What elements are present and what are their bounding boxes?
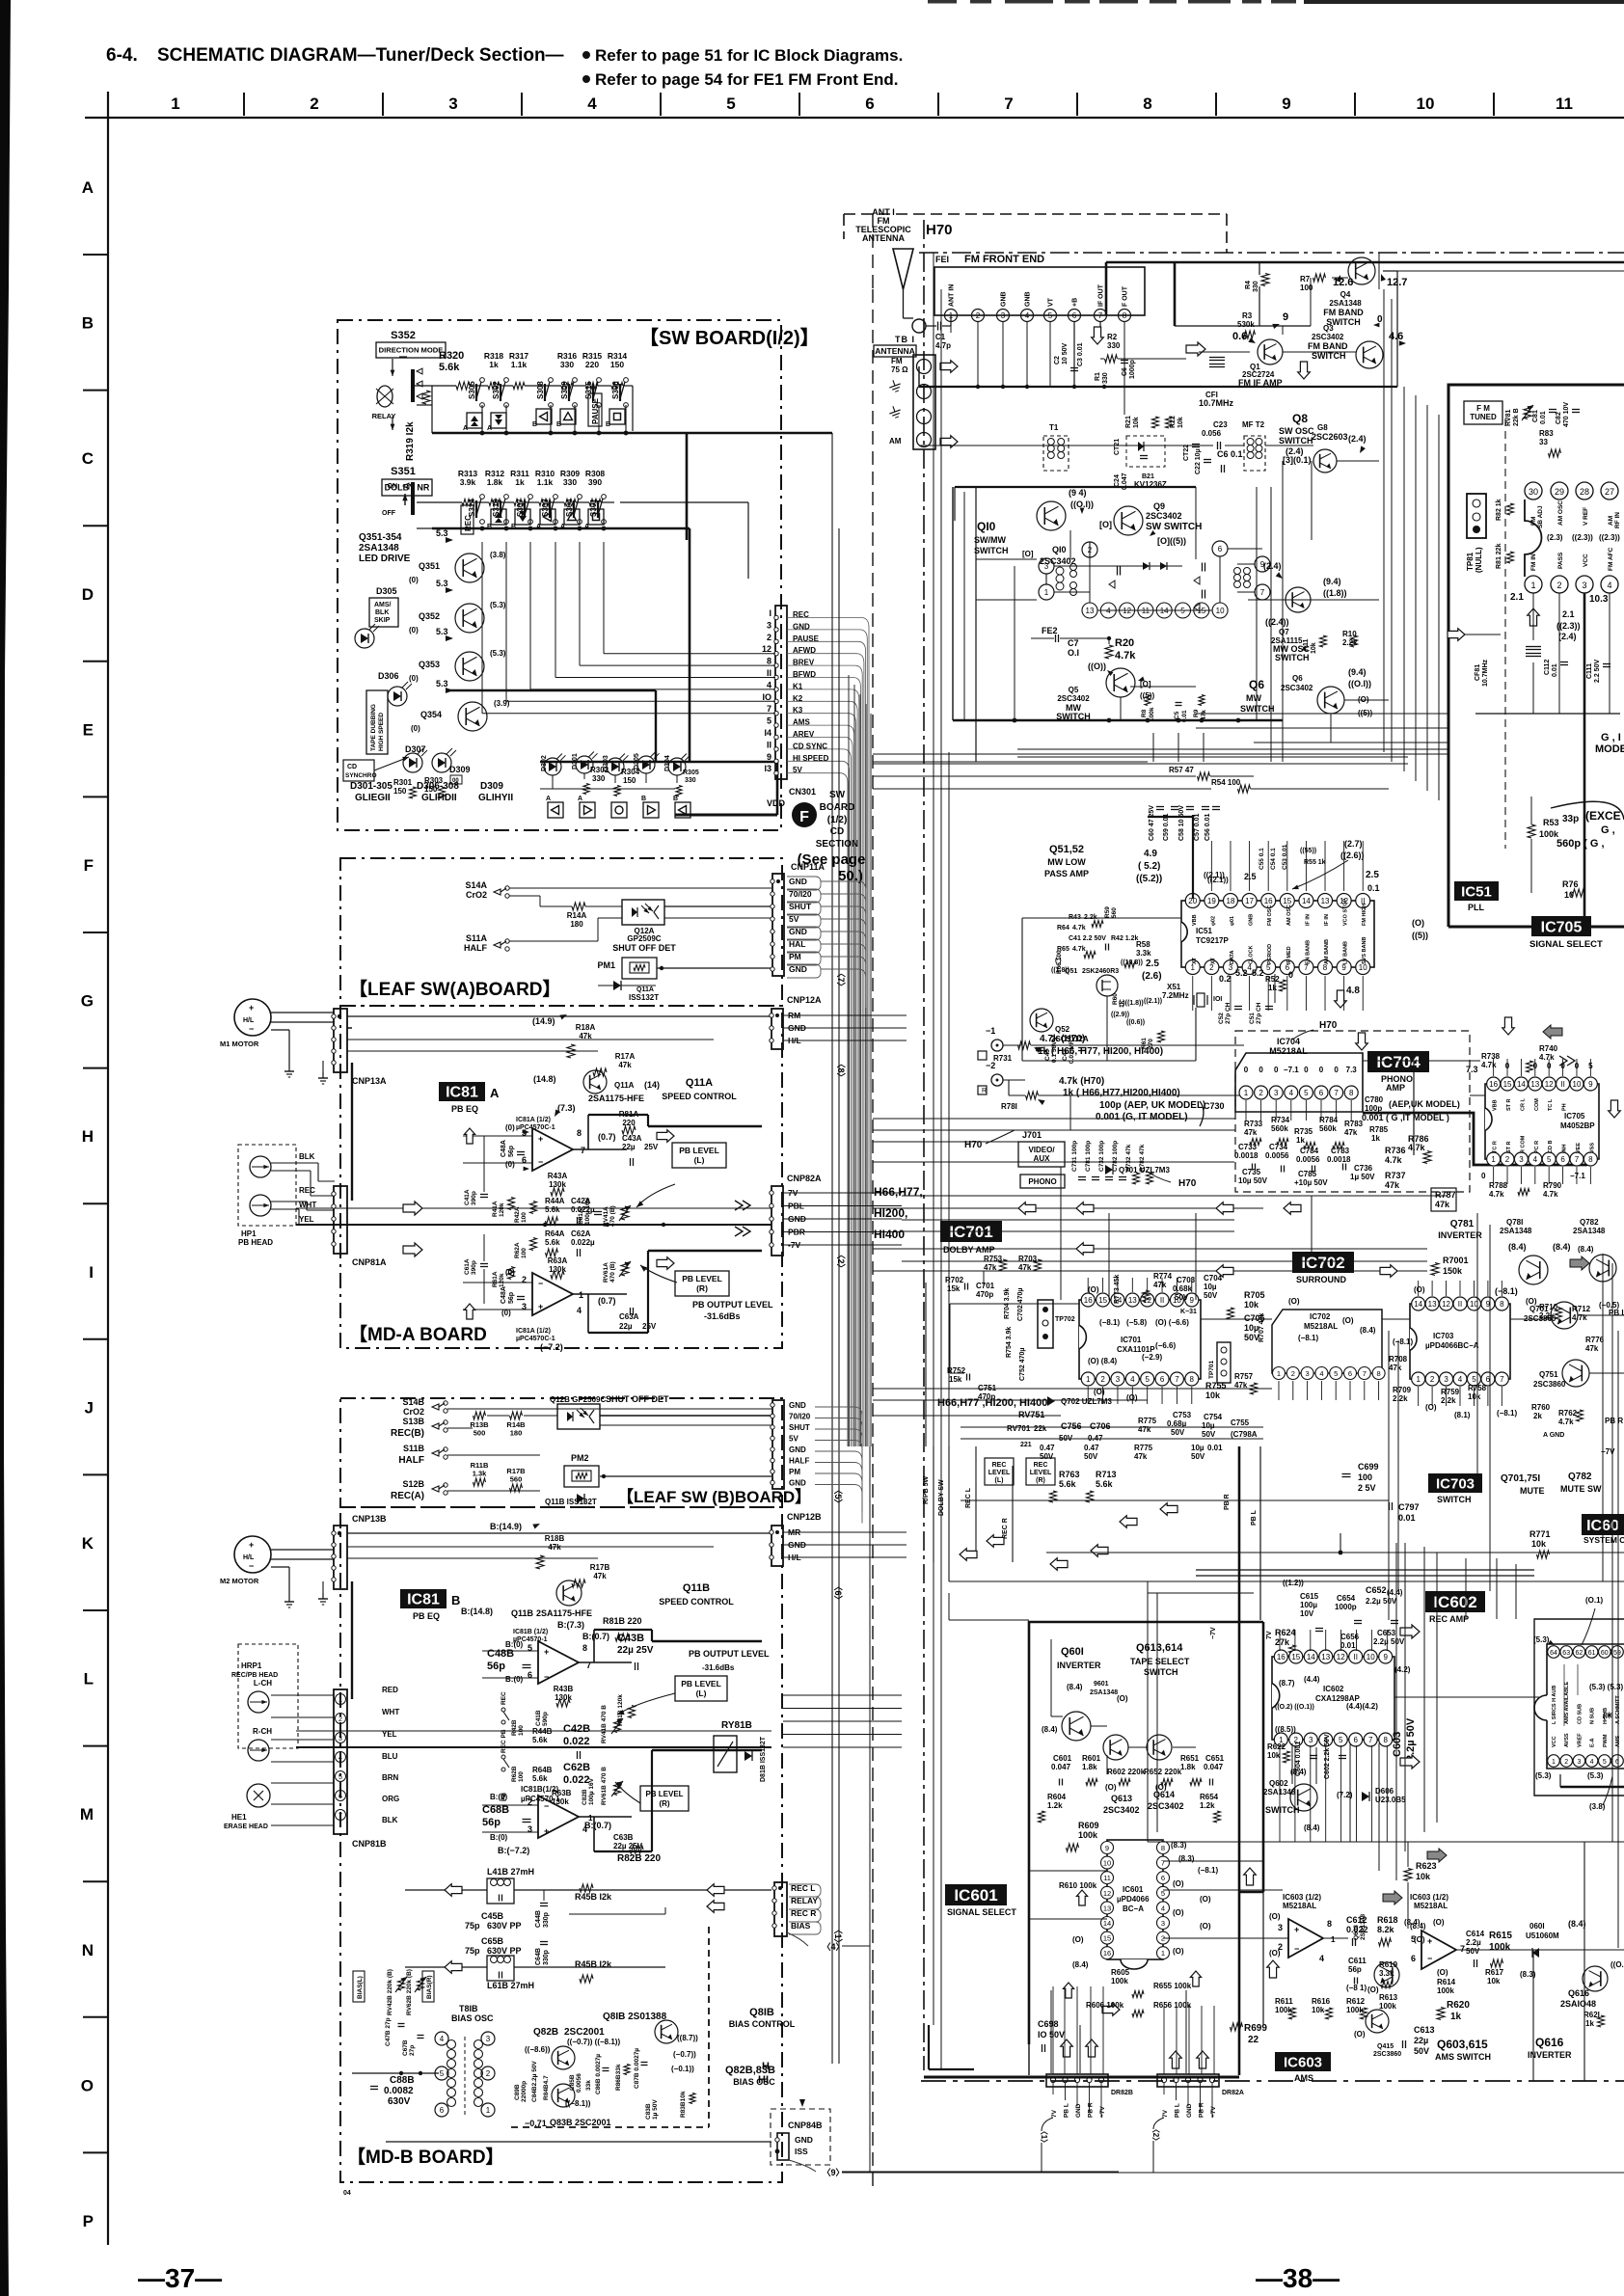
svg-text:Q353: Q353 [419, 660, 440, 669]
svg-text:II: II [1160, 1296, 1164, 1305]
svg-text:7: 7 [1175, 1375, 1179, 1384]
wires FE1 pins down [950, 322, 952, 333]
svg-text:(8.4): (8.4) [1067, 1683, 1083, 1691]
svg-text:C60 47 25V: C60 47 25V [1149, 805, 1155, 841]
svg-text:1: 1 [1331, 1935, 1336, 1944]
svg-text:R18A: R18A [576, 1023, 596, 1032]
svg-text:11: 11 [1556, 95, 1573, 113]
svg-text:(9 4): (9 4) [1069, 488, 1087, 498]
svg-text:R14A: R14A [567, 911, 587, 920]
svg-text:REC R: REC R [791, 1908, 816, 1918]
svg-text:C699: C699 [1358, 1462, 1379, 1472]
svg-text:Q3: Q3 [1323, 324, 1334, 333]
switch S308 [549, 378, 554, 383]
H66 arrow down [799, 2099, 805, 2107]
MW pin 3 [1039, 558, 1054, 574]
svg-text:R83: R83 [1539, 429, 1554, 438]
svg-text:5: 5 [1048, 311, 1053, 320]
svg-text:IC701: IC701 [949, 1223, 992, 1241]
svg-text:3: 3 [338, 1736, 342, 1742]
svg-text:C89B: C89B [514, 2084, 521, 2100]
svg-text:1: 1 [1161, 1949, 1165, 1958]
button icon B dn2 row2 [515, 509, 530, 525]
svg-text:Q11B: Q11B [511, 1608, 534, 1618]
svg-text:(−5.8): (−5.8) [1126, 1318, 1147, 1327]
wires bias upper [405, 1889, 487, 1891]
svg-text:R320: R320 [439, 350, 464, 362]
ruler top line [85, 117, 1624, 119]
svg-text:((1.8)): ((1.8)) [1051, 967, 1069, 974]
svg-text:B: B [451, 1593, 460, 1607]
svg-text:R42A: R42A [514, 1206, 521, 1223]
svg-text:R52: R52 [1265, 975, 1280, 984]
svg-text:2.2 50V: 2.2 50V [1594, 660, 1601, 683]
svg-text:H66,H77,: H66,H77, [874, 1185, 923, 1199]
PAUSE label [588, 393, 602, 426]
svg-text:Q354: Q354 [420, 710, 442, 719]
svg-text:K: K [82, 1534, 95, 1553]
svg-text:QI0: QI0 [977, 520, 996, 533]
svg-text:9: 9 [1190, 1296, 1195, 1305]
svg-text:C42B: C42B [563, 1723, 590, 1735]
transistor Q7 MW OSC SWITCH [1286, 587, 1311, 612]
svg-text:µPD4066BC−A: µPD4066BC−A [1425, 1341, 1479, 1350]
svg-text:470p: 470p [976, 1290, 993, 1299]
svg-text:5: 5 [767, 716, 771, 726]
svg-text:7: 7 [1004, 95, 1013, 113]
MW diodes [1143, 562, 1150, 570]
svg-text:10: 10 [1367, 1653, 1375, 1661]
svg-text:S305: S305 [468, 381, 476, 399]
svg-text:0.0056: 0.0056 [1265, 1151, 1289, 1160]
svg-text:2: 2 [1100, 1375, 1105, 1384]
row tick F [83, 932, 108, 933]
svg-text:1µ 50V: 1µ 50V [1350, 1173, 1375, 1181]
svg-text:ISS132T: ISS132T [629, 993, 659, 1002]
svg-text:150: 150 [610, 360, 624, 369]
svg-text:PLL: PLL [1468, 903, 1485, 912]
circled F [792, 802, 817, 827]
transistor Q83B [552, 2084, 575, 2107]
svg-text:S314: S314 [468, 499, 476, 517]
svg-text:FE2: FE2 [1042, 626, 1058, 635]
svg-text:4: 4 [1025, 311, 1030, 320]
svg-text:13: 13 [1103, 1904, 1111, 1912]
svg-text:180: 180 [510, 1429, 523, 1438]
svg-text:S14B: S14B [402, 1397, 424, 1407]
svg-text:TUNED: TUNED [1470, 413, 1497, 421]
svg-text:C85B: C85B [569, 2074, 576, 2091]
svg-text:30: 30 [1529, 487, 1538, 497]
svg-text:10V: 10V [1300, 1609, 1314, 1618]
svg-text:AM BANB: AM BANB [1324, 939, 1330, 964]
svg-text:PB R: PB R [1199, 2102, 1205, 2118]
wires row1 switches down [550, 405, 552, 415]
svg-text:1: 1 [1416, 1375, 1421, 1384]
CF1 10.7MHz filter [1199, 351, 1250, 353]
svg-text:J701: J701 [1022, 1130, 1042, 1140]
svg-text:SKIP: SKIP [374, 617, 391, 624]
svg-text:(O): (O) [1269, 1949, 1281, 1958]
svg-text:HE1: HE1 [231, 1813, 247, 1822]
wires pll area [1022, 917, 1181, 919]
cap C1 4.7p [937, 322, 939, 331]
svg-text:8: 8 [1123, 311, 1127, 320]
svg-text:(R): (R) [696, 1283, 708, 1293]
svg-text:(O): (O) [1269, 1912, 1281, 1921]
right edge verticals [1602, 1254, 1604, 1581]
svg-text:18: 18 [1227, 897, 1235, 905]
svg-text:(O): (O) [1433, 1918, 1445, 1927]
svg-text:GNB: GNB [1001, 291, 1008, 307]
svg-text:4.7k (H70): 4.7k (H70) [1040, 1034, 1085, 1044]
svg-text:50V: 50V [1191, 1452, 1205, 1461]
svg-text:ST R: ST R [1506, 1098, 1512, 1111]
svg-text:(3.8): (3.8) [490, 551, 506, 559]
svg-text:560p ( G ,: 560p ( G , [1556, 838, 1605, 850]
IC702 pin stubs [1278, 1381, 1280, 1400]
svg-text:ON: ON [388, 483, 398, 490]
switch S315 [597, 378, 602, 383]
svg-text:AMP: AMP [1386, 1083, 1405, 1093]
svg-text:C63A: C63A [619, 1312, 639, 1321]
svg-text:AM OSC: AM OSC [1557, 500, 1564, 526]
svg-text:PB LEVEL: PB LEVEL [682, 1274, 722, 1283]
svg-text:10.7MHz: 10.7MHz [1482, 659, 1489, 687]
switch S302 [504, 378, 509, 383]
svg-text:R618: R618 [1377, 1915, 1398, 1925]
svg-text:4: 4 [338, 1755, 342, 1762]
svg-text:R63A: R63A [548, 1256, 568, 1265]
wires rec to ic602 [949, 1580, 1148, 1582]
svg-text:C45B: C45B [481, 1911, 504, 1921]
wire S352 to resistors [415, 385, 432, 387]
svg-text:R620: R620 [1447, 2000, 1470, 2011]
svg-text:(1/2): (1/2) [827, 815, 848, 825]
svg-text:1k: 1k [1268, 984, 1277, 992]
head wires [271, 1162, 318, 1164]
svg-text:4.7k: 4.7k [1489, 1190, 1504, 1199]
svg-text:(4.4)(4.2): (4.4)(4.2) [1346, 1702, 1378, 1711]
svg-text:0.0056: 0.0056 [576, 2073, 582, 2093]
connector CNP13A [334, 1009, 347, 1072]
svg-text:Q782: Q782 [1580, 1218, 1599, 1227]
svg-text:R1: R1 [1095, 372, 1101, 381]
svg-text:470 10V: 470 10V [1563, 402, 1570, 427]
svg-text:SYNCHRO: SYNCHRO [345, 772, 377, 779]
IC705 black label [1531, 916, 1591, 936]
svg-text:R771: R771 [1529, 1529, 1551, 1539]
svg-text:9601: 9601 [1094, 1681, 1109, 1688]
svg-text:(0): (0) [505, 1268, 515, 1277]
svg-text:3: 3 [767, 620, 771, 630]
signal arrows MD-A [403, 1202, 422, 1215]
wires from tuner ic pins right [1383, 270, 1624, 272]
svg-text:R43A: R43A [548, 1172, 568, 1180]
thick bus corners bottom left [928, 2025, 930, 2069]
svg-text:A GND: A GND [1543, 1432, 1564, 1439]
transistor Q9 SW SWITCH [1114, 506, 1143, 535]
svg-text:µPC4570C-1: µPC4570C-1 [516, 1336, 555, 1342]
svg-text:IF IN: IF IN [1305, 914, 1311, 926]
svg-text:4: 4 [440, 2035, 445, 2043]
svg-text:SPEED CONTROL: SPEED CONTROL [662, 1092, 737, 1101]
svg-text:(8.4): (8.4) [1553, 1242, 1571, 1252]
svg-text:PB LEVEL: PB LEVEL [679, 1146, 719, 1155]
svg-text:10: 10 [1573, 1080, 1582, 1089]
svg-text:D306-308: D306-308 [417, 781, 459, 792]
svg-text:IO: IO [762, 692, 771, 702]
svg-text:RV42B 220k (B): RV42B 220k (B) [387, 1969, 393, 2015]
svg-text:Q751: Q751 [1539, 1370, 1558, 1379]
diode D81B [744, 1751, 752, 1761]
svg-text:RV81: RV81 [1505, 410, 1512, 426]
svg-text:−: − [249, 1024, 254, 1034]
svg-text:47k: 47k [579, 1032, 592, 1040]
svg-text:FM FRONT END: FM FRONT END [964, 254, 1044, 265]
svg-text:C55 0.1: C55 0.1 [1259, 848, 1265, 870]
IC604 black label right edge [1582, 1514, 1624, 1535]
arrow PB LEVEL R B [615, 1782, 640, 1803]
dashed vertical 905 extension [872, 214, 874, 289]
svg-text:27: 27 [1605, 487, 1614, 497]
svg-text:4: 4 [1458, 1375, 1463, 1384]
flow arrow AM [940, 436, 958, 448]
svg-text:470 (B): 470 (B) [609, 1261, 616, 1283]
svg-text:C82B: C82B [582, 1789, 588, 1805]
svg-text:VSS: VSS [1589, 1143, 1595, 1153]
svg-text:HALF: HALF [398, 1455, 424, 1466]
wire bias trunk [369, 2072, 439, 2074]
svg-text:C797: C797 [1398, 1502, 1420, 1512]
svg-text:REC/PB HEAD: REC/PB HEAD [231, 1672, 278, 1679]
svg-text:D301-305: D301-305 [350, 781, 392, 792]
svg-text:INVERTER: INVERTER [1438, 1230, 1482, 1240]
svg-text:【SW BOARD(I/2)】: 【SW BOARD(I/2)】 [639, 327, 820, 349]
svg-text:R614: R614 [1437, 1978, 1456, 1986]
svg-text:(−8.1): (−8.1) [1495, 1286, 1518, 1296]
svg-text:R652 220k: R652 220k [1144, 1768, 1182, 1776]
svg-text:SWITCH: SWITCH [1240, 704, 1275, 714]
svg-text:S11A: S11A [466, 933, 488, 943]
svg-text:14: 14 [1307, 1653, 1315, 1661]
svg-text:R17A: R17A [615, 1052, 636, 1061]
LED D305 [355, 629, 374, 648]
svg-text:(5.3): (5.3) [1533, 1635, 1550, 1644]
svg-text:1.3k: 1.3k [473, 1470, 487, 1478]
svg-text:R82B 220: R82B 220 [617, 1853, 661, 1864]
svg-text:BIAS CONTROL: BIAS CONTROL [729, 2019, 796, 2029]
wire horizontal 1680 left [949, 1619, 1029, 1621]
svg-text:REC(A): REC(A) [391, 1491, 424, 1501]
main center wires B [296, 1730, 771, 1732]
svg-text:10k: 10k [1205, 1391, 1221, 1400]
svg-text:6: 6 [1354, 1736, 1359, 1744]
svg-text:QI0: QI0 [1052, 545, 1067, 554]
verticals phono to dolby [1060, 1167, 1062, 1300]
button icon B up [560, 409, 576, 424]
svg-text:4: 4 [767, 680, 771, 689]
svg-text:560: 560 [510, 1475, 523, 1484]
svg-text:100k: 100k [1379, 2002, 1396, 2011]
svg-text:100k: 100k [1111, 1977, 1128, 1985]
svg-text:FM AFC: FM AFC [1608, 547, 1614, 571]
svg-text:〈9〉: 〈9〉 [822, 2168, 844, 2177]
svg-text:BLK: BLK [382, 1816, 398, 1824]
svg-text:7: 7 [1460, 1944, 1465, 1954]
svg-text:R773 45k: R773 45k [1114, 1275, 1121, 1304]
vertical trunk x=863-870 [831, 433, 833, 2064]
svg-text:C703: C703 [1177, 1276, 1196, 1284]
svg-text:130k: 130k [549, 1180, 566, 1189]
svg-text:CD SUB: CD SUB [1577, 1704, 1583, 1724]
svg-text:GNB: GNB [1249, 914, 1255, 926]
svg-text:Q782: Q782 [1568, 1472, 1592, 1482]
svg-text:GND: GND [1186, 2103, 1193, 2118]
svg-text:7: 7 [1575, 1155, 1580, 1164]
IC602 black label [1425, 1591, 1485, 1612]
svg-text:0.2: 0.2 [1219, 974, 1232, 984]
svg-text:C755: C755 [1231, 1418, 1250, 1427]
svg-text:N SUB: N SUB [1590, 1708, 1596, 1724]
svg-text:(2.6): (2.6) [1142, 971, 1162, 982]
svg-text:64: 64 [1550, 1650, 1557, 1657]
svg-text:C730: C730 [1204, 1101, 1225, 1111]
svg-text:GND: GND [789, 877, 807, 886]
IC51 pin stubs [1192, 841, 1194, 891]
svg-text:RV61B 470 B: RV61B 470 B [601, 1767, 608, 1805]
svg-text:PB HEAD: PB HEAD [238, 1238, 273, 1247]
svg-text:−: − [538, 1157, 543, 1167]
MW right coil transformer [1234, 568, 1241, 575]
row tick N [83, 2016, 108, 2018]
svg-text:(O): (O) [1173, 1908, 1184, 1917]
CNP84B dashed box [771, 2109, 830, 2165]
svg-text:S11B: S11B [403, 1444, 425, 1453]
svg-text:C753: C753 [1173, 1411, 1192, 1419]
svg-text:C54 0.1: C54 0.1 [1270, 848, 1277, 870]
svg-text:50V: 50V [1414, 2046, 1429, 2056]
svg-text:120k: 120k [499, 1202, 505, 1217]
svg-text:2SC3860: 2SC3860 [1533, 1380, 1566, 1389]
svg-text:BRN: BRN [382, 1773, 399, 1782]
svg-text:Q82B: Q82B [533, 2027, 558, 2038]
button icon A up2 [467, 413, 482, 428]
svg-text:Q701 UZL7M3: Q701 UZL7M3 [1119, 1166, 1170, 1175]
transistor Q11B [556, 1580, 582, 1606]
svg-text:530k: 530k [1237, 320, 1255, 329]
svg-text:2 5V: 2 5V [1358, 1483, 1376, 1493]
svg-text:7: 7 [338, 1813, 342, 1820]
svg-text:C3 0.01: C3 0.01 [1077, 342, 1084, 366]
svg-text:R785: R785 [1369, 1125, 1389, 1134]
svg-text:0: 0 [1319, 1066, 1324, 1074]
svg-text:C62A: C62A [571, 1229, 591, 1238]
svg-text:0.022µ: 0.022µ [571, 1238, 595, 1247]
svg-text:((O.I)): ((O.I)) [1070, 500, 1094, 509]
REC LEVEL L box [985, 1458, 1014, 1485]
svg-text:Q4: Q4 [1340, 290, 1351, 299]
svg-text:SCHEMATIC DIAGRAM—Tuner/Deck S: SCHEMATIC DIAGRAM—Tuner/Deck Section— [157, 45, 564, 66]
svg-text:AMS SWITCH: AMS SWITCH [1435, 2052, 1491, 2062]
svg-text:2SC3402: 2SC3402 [1103, 1805, 1140, 1815]
svg-text:YEL: YEL [299, 1215, 314, 1224]
svg-text:Q5: Q5 [1069, 686, 1079, 694]
svg-text:100k: 100k [1437, 1986, 1454, 1995]
svg-text:2SC3402: 2SC3402 [1312, 333, 1344, 341]
svg-text:I3: I3 [764, 764, 771, 773]
svg-text:VCC: VCC [1552, 1736, 1557, 1747]
svg-text:R55 1k: R55 1k [1304, 859, 1326, 866]
photocoupler Q12A [622, 900, 664, 925]
svg-text:5.6k: 5.6k [532, 1774, 548, 1783]
svg-text:47k: 47k [548, 1543, 561, 1552]
svg-text:R60: R60 [1112, 993, 1119, 1005]
svg-text:M: M [80, 1805, 94, 1823]
svg-text:5: 5 [1145, 1375, 1150, 1384]
svg-text:3: 3 [1044, 562, 1049, 571]
svg-text:−: − [1427, 1954, 1432, 1963]
svg-text:0: 0 [1274, 1066, 1279, 1074]
svg-text:R762: R762 [1558, 1409, 1578, 1418]
svg-text:R737: R737 [1385, 1171, 1406, 1180]
svg-text:R617: R617 [1485, 1968, 1504, 1977]
svg-text:−7V: −7V [1099, 2106, 1106, 2118]
node 9 circle [789, 2160, 816, 2172]
svg-text:R790: R790 [1543, 1181, 1562, 1190]
PB LEVEL L box [672, 1143, 726, 1168]
svg-text:9: 9 [1283, 311, 1288, 323]
svg-text:60: 60 [1601, 1650, 1609, 1657]
svg-text:【MD-A BOARD: 【MD-A BOARD [349, 1323, 487, 1345]
svg-text:((O)): ((O)) [1088, 662, 1106, 671]
svg-text:50V: 50V [1383, 1597, 1397, 1606]
svg-text:G , I: G , I [1601, 732, 1621, 743]
svg-text:C81: C81 [1532, 410, 1539, 422]
FE1 FM FRONT END box [934, 267, 1145, 315]
skew ground 2 [887, 404, 902, 419]
wires dolby strip extra [902, 1195, 1447, 1197]
svg-text:4: 4 [1590, 1759, 1594, 1766]
row tick K [83, 1609, 108, 1611]
svg-text:1000p: 1000p [1335, 1603, 1357, 1611]
svg-text:GLIHDII: GLIHDII [421, 793, 457, 803]
svg-text:(8.4): (8.4) [1360, 1326, 1376, 1335]
svg-text:SW SWITCH: SW SWITCH [1146, 522, 1202, 532]
svg-text:REC: REC [299, 1186, 315, 1195]
svg-text:1: 1 [486, 2106, 491, 2115]
svg-text:C65B: C65B [481, 1936, 504, 1946]
svg-text:C48B: C48B [487, 1648, 514, 1660]
svg-text:6: 6 [1161, 1874, 1165, 1882]
svg-text:IC81B (1/2): IC81B (1/2) [513, 1629, 548, 1635]
wire R57 row [873, 775, 1196, 777]
svg-text:GLIEGII: GLIEGII [355, 793, 391, 803]
svg-text:O.I: O.I [1068, 648, 1079, 658]
svg-text:CrO2: CrO2 [466, 890, 487, 900]
svg-text:150: 150 [393, 787, 407, 796]
svg-text:75p: 75p [465, 1921, 480, 1931]
svg-text:(O) (−6.6): (O) (−6.6) [1155, 1318, 1189, 1327]
svg-text:VBB: VBB [1493, 1099, 1499, 1111]
svg-text:R61A: R61A [492, 1271, 499, 1287]
svg-text:Q616: Q616 [1568, 1988, 1589, 1998]
svg-text:4.7k: 4.7k [1543, 1190, 1558, 1199]
svg-text:R81B 220: R81B 220 [603, 1616, 642, 1626]
svg-text:2.1: 2.1 [1562, 609, 1575, 619]
svg-text:(−8.1): (−8.1) [1497, 1409, 1517, 1418]
AMS/BLK SKIP box [369, 598, 398, 627]
